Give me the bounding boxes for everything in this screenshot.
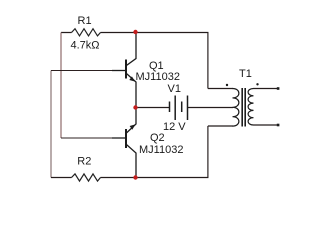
transformer T1 secondary winding	[248, 89, 253, 126]
transistor Q1 (NPN, emitter down)	[112, 32, 136, 108]
phase dot secondary	[256, 83, 258, 85]
svg-text:V1: V1	[168, 83, 181, 95]
svg-text:4.7kΩ: 4.7kΩ	[71, 40, 100, 52]
svg-text:MJ11032: MJ11032	[139, 144, 183, 156]
wire transformer bottom-left lead	[208, 125, 233, 127]
terminal end bottom	[277, 124, 280, 127]
transformer T1 core	[242, 88, 245, 127]
wire emitter node to battery	[136, 107, 169, 109]
svg-text:R1: R1	[78, 15, 92, 27]
svg-text:R2: R2	[77, 155, 91, 167]
phase dot primary	[226, 84, 228, 86]
arrow Q2 emitter	[130, 124, 136, 129]
wire secondary top lead	[254, 88, 279, 90]
wire bottom rail through R2 and junction to right corner	[51, 126, 208, 178]
svg-text:MJ11032: MJ11032	[136, 71, 180, 83]
wire top rail from R1 left corner through junction to right corner	[61, 33, 208, 89]
arrow Q1 emitter	[129, 76, 135, 81]
transformer T1 primary winding	[233, 89, 239, 127]
node junction bottom (Q2 collector/R2)	[133, 175, 137, 179]
wire secondary bottom lead	[254, 124, 279, 126]
node junction top (R1/Q1 collector)	[133, 30, 137, 34]
wire left outer vertical from Q1 base down to bottom rail	[50, 71, 52, 178]
terminal end top	[277, 87, 280, 90]
transistor Q2 (NPN, emitter up)	[112, 108, 136, 178]
wire left inner vertical from R1 left to Q2 base	[60, 33, 62, 139]
wire Q1 base horizontal	[51, 70, 112, 72]
wire Q2 base horizontal	[61, 137, 112, 139]
resistor R2	[72, 174, 101, 181]
svg-text:Q2: Q2	[150, 132, 165, 144]
resistor R1	[72, 29, 101, 36]
battery V1	[170, 96, 188, 121]
node junction emitters/battery	[133, 105, 137, 109]
svg-text:T1: T1	[239, 68, 252, 80]
wire battery to transformer center tap	[188, 107, 234, 109]
svg-text:12 V: 12 V	[163, 121, 186, 133]
wire transformer top-left lead	[208, 88, 233, 90]
